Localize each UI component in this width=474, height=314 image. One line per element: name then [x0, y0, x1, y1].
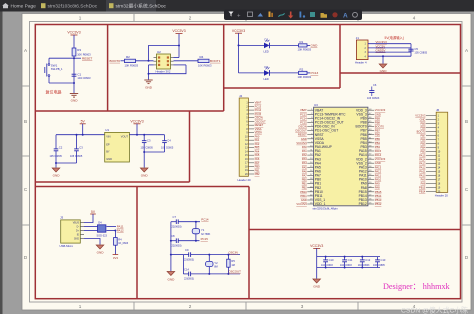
svg-text:VCC3V3: VCC3V3: [415, 113, 426, 117]
power flag 3V3: [113, 254, 119, 256]
svg-text:LED: LED: [264, 77, 269, 81]
divider box2/led box: [223, 25, 225, 112]
svg-text:OSCIN: OSCIN: [255, 116, 263, 120]
svg-text:U3: U3: [314, 103, 318, 107]
svg-text:VCC3V3: VCC3V3: [232, 29, 245, 33]
led box bottom: [224, 87, 340, 89]
ground: [140, 168, 148, 172]
box1+box2 bottom: [35, 110, 223, 112]
mcu left net labels: [295, 108, 307, 206]
svg-text:PB9: PB9: [375, 116, 381, 120]
svg-text:3V3: 3V3: [113, 256, 118, 260]
svg-text:PB14: PB14: [419, 189, 426, 193]
svg-text:D-: D-: [77, 226, 80, 228]
svg-text:104 C0603: 104 C0603: [358, 264, 370, 267]
svg-text:105 C0805: 105 C0805: [141, 147, 154, 150]
svg-text:RESET: RESET: [82, 57, 92, 61]
svg-text:PA12: PA12: [375, 169, 382, 173]
svg-text:D1: D1: [265, 37, 269, 41]
capacitor C5: [408, 48, 413, 50]
capacitor C2a: [76, 135, 78, 149]
svg-text:J1: J1: [356, 36, 360, 40]
svg-text:PA0: PA0: [255, 134, 260, 138]
regulator box bottom: [35, 181, 189, 183]
resistor R4u: [114, 231, 116, 238]
svg-text:104 C0603: 104 C0603: [77, 76, 91, 80]
mcu body: [314, 107, 368, 206]
svg-text:C11: C11: [348, 258, 353, 262]
svg-text:PB1: PB1: [302, 182, 308, 186]
wire to gnd: [382, 55, 384, 57]
wires + nets: [368, 44, 411, 57]
svg-text:PB11: PB11: [300, 194, 307, 198]
power flag VCC3V3: [67, 31, 80, 35]
svg-text:VCC3V3: VCC3V3: [296, 141, 307, 145]
capacitor C14: [183, 273, 188, 275]
svg-text:PA6: PA6: [255, 157, 260, 161]
svg-text:PC15: PC15: [300, 120, 307, 124]
wire: [144, 151, 164, 153]
svg-text:stm32f103c8t_48pin: stm32f103c8t_48pin: [313, 207, 339, 211]
svg-text:VBUS: VBUS: [73, 222, 80, 224]
mcu right net labels: [375, 108, 386, 206]
svg-text:PC13: PC13: [255, 104, 262, 108]
ground: [167, 272, 175, 276]
svg-text:PA8: PA8: [375, 186, 380, 190]
svg-text:PA12: PA12: [419, 165, 426, 169]
caps box top: [249, 229, 461, 231]
svg-text:PA4: PA4: [302, 161, 307, 165]
svg-text:VCC3V3: VCC3V3: [130, 119, 143, 123]
svg-text:C1: C1: [77, 72, 81, 76]
header U2: [157, 54, 171, 69]
capacitor C1a: [55, 135, 57, 149]
svg-text:PB14: PB14: [375, 194, 382, 198]
svg-text:PC13: PC13: [311, 71, 319, 75]
gnd rail: [170, 222, 172, 271]
svg-text:Header 20: Header 20: [238, 178, 252, 182]
svg-text:GND: GND: [420, 117, 426, 121]
svg-text:LED: LED: [264, 49, 269, 53]
esd diode D4: [98, 225, 106, 232]
row3 top: [35, 186, 249, 188]
svg-text:PC15: PC15: [201, 237, 209, 241]
connector J1: [356, 40, 368, 60]
wires D-/D+: [84, 226, 98, 228]
svg-text:GND: GND: [380, 69, 388, 73]
wire: [82, 124, 84, 135]
svg-text:C7: C7: [173, 215, 177, 219]
wire right: [174, 60, 199, 62]
svg-text:OSCOUT: OSCOUT: [255, 119, 267, 123]
svg-text:PB6: PB6: [420, 137, 425, 141]
regulator box right: [189, 111, 191, 182]
svg-text:Designer： hhhmxk: Designer： hhhmxk: [383, 282, 451, 291]
svg-text:PC14: PC14: [300, 116, 307, 120]
svg-text:C6: C6: [373, 83, 377, 87]
svg-text:1: 1: [79, 304, 82, 309]
svg-text:OSCOUT: OSCOUT: [295, 129, 307, 133]
capacitor C3b: [143, 135, 145, 141]
svg-text:VIN: VIN: [106, 135, 110, 139]
node PC13: [307, 72, 310, 74]
svg-text:5V: 5V: [81, 119, 86, 123]
svg-text:D2: D2: [265, 65, 269, 69]
crystal Y1: [195, 222, 197, 229]
svg-text:GND: GND: [313, 285, 321, 289]
svg-text:EP: EP: [106, 142, 110, 146]
resistor R4: [198, 59, 209, 62]
svg-text:105 C0805: 105 C0805: [50, 155, 63, 158]
svg-text:J6: J6: [436, 108, 440, 112]
svg-text:PA3: PA3: [255, 146, 260, 150]
svg-text:PA13: PA13: [419, 161, 426, 165]
svg-text:PA15: PA15: [419, 153, 426, 157]
svg-text:RESET: RESET: [255, 123, 264, 127]
svg-text:J3: J3: [60, 216, 64, 220]
svg-text:Header 20: Header 20: [435, 194, 449, 198]
svg-text:PA2: PA2: [302, 153, 307, 157]
svg-text:PB7: PB7: [420, 133, 425, 137]
svg-text:PB1: PB1: [255, 168, 260, 172]
capacitor C1: [72, 73, 77, 75]
svg-text:GND: GND: [141, 174, 149, 178]
svg-text:stm32f103c8t6.SchDoc: stm32f103c8t6.SchDoc: [48, 4, 98, 10]
svg-text:PA0: PA0: [302, 145, 307, 149]
svg-text:106 C0805: 106 C0805: [373, 264, 385, 267]
crystal/caps divider: [248, 187, 250, 299]
svg-text:SW-PB_1: SW-PB_1: [51, 67, 63, 71]
svg-text:VCC3V3: VCC3V3: [67, 31, 80, 35]
mcu pin numbers: [310, 109, 372, 205]
svg-text:PA7: PA7: [302, 174, 307, 178]
capacitor C6: [367, 83, 380, 100]
svg-text:GND: GND: [301, 137, 307, 141]
svg-text:22(0603): 22(0603): [172, 225, 182, 228]
svg-text:Y1: Y1: [201, 228, 205, 232]
usb connector J3: [61, 220, 81, 243]
svg-text:C9: C9: [185, 248, 189, 252]
svg-text:PB15: PB15: [375, 190, 382, 194]
resistor R3: [72, 48, 76, 56]
wire bottom loop: [149, 65, 187, 74]
svg-text:C3: C3: [79, 145, 83, 149]
svg-text:104 C0603: 104 C0603: [321, 264, 333, 267]
branch 2: [239, 72, 265, 74]
crystal Y2: [208, 254, 210, 256]
svg-text:PB12: PB12: [359, 202, 367, 206]
ground: [313, 279, 321, 283]
bottom rail: [317, 267, 380, 269]
svg-text:PC13: PC13: [300, 112, 307, 116]
capacitor C9: [183, 254, 188, 256]
svg-text:U1: U1: [105, 128, 109, 132]
svg-text:PB5: PB5: [375, 137, 381, 141]
svg-text:PB6: PB6: [375, 133, 381, 137]
wire gnd pin: [84, 239, 100, 245]
svg-text:PB2: PB2: [302, 186, 308, 190]
left dark strip: [0, 11, 3, 314]
svg-text:10K R0603: 10K R0603: [125, 64, 139, 68]
svg-text:PA14: PA14: [419, 157, 426, 161]
svg-text:PB4: PB4: [375, 141, 381, 145]
svg-text:复位电路: 复位电路: [46, 89, 62, 95]
svg-text:5V(电源输入): 5V(电源输入): [385, 35, 404, 40]
svg-text:PC15: PC15: [255, 112, 262, 116]
svg-text:SOD-323: SOD-323: [97, 234, 108, 237]
svg-text:4: 4: [413, 16, 416, 21]
svg-text:PA6: PA6: [302, 169, 307, 173]
svg-text:R4: R4: [118, 237, 122, 241]
svg-text:1K_0603: 1K_0603: [118, 242, 129, 245]
svg-text:10K R0603: 10K R0603: [298, 48, 312, 52]
wire: [73, 83, 75, 93]
capacitor C10: [326, 257, 378, 268]
svg-text:PB8: PB8: [420, 125, 425, 129]
outer drawing border: [35, 25, 460, 299]
svg-text:PB9: PB9: [420, 121, 425, 125]
svg-text:PA2: PA2: [255, 142, 260, 146]
svg-text:BOOT0: BOOT0: [417, 129, 426, 133]
svg-text:3: 3: [301, 304, 304, 309]
svg-text:GND: GND: [167, 277, 175, 281]
svg-text:PA3: PA3: [302, 157, 307, 161]
svg-text:PA1: PA1: [302, 149, 307, 153]
svg-text:2: 2: [189, 16, 192, 21]
ground: [70, 94, 78, 98]
svg-text:GND5V: GND5V: [376, 49, 386, 53]
svg-text:D4: D4: [98, 221, 102, 225]
divider led/power box: [339, 25, 341, 89]
svg-text:RESET: RESET: [298, 133, 307, 137]
wire: [238, 33, 240, 73]
svg-text:R1: R1: [300, 40, 304, 44]
svg-text:C12: C12: [365, 258, 370, 262]
capacitor C8: [171, 240, 176, 242]
mcu pin names left: [315, 108, 346, 206]
svg-text:C5: C5: [414, 47, 418, 51]
gnd drop: [316, 268, 318, 279]
svg-text:VCC3V3: VCC3V3: [172, 29, 185, 33]
svg-text:VCC3V3: VCC3V3: [375, 108, 386, 112]
svg-text:PA8: PA8: [421, 181, 426, 185]
svg-text:VDD_1: VDD_1: [315, 202, 326, 206]
svg-text:GND: GND: [71, 99, 79, 103]
svg-text:VDDA: VDDA: [255, 131, 262, 135]
svg-text:OSCOUT: OSCOUT: [229, 270, 242, 274]
svg-text:BOOT0: BOOT0: [110, 59, 121, 63]
svg-text:1M: 1M: [231, 264, 234, 267]
svg-text:GND: GND: [97, 251, 105, 255]
switch SW1: [48, 64, 50, 66]
wire to lower group: [171, 254, 184, 256]
pin stubs: [80, 223, 84, 239]
svg-text:Header 4: Header 4: [355, 61, 367, 65]
power box bottom: [340, 72, 461, 74]
svg-text:PA7: PA7: [255, 161, 260, 165]
svg-text:C3: C3: [147, 139, 151, 143]
svg-text:GND: GND: [311, 44, 319, 48]
resistor R5: [227, 254, 229, 256]
wire: [49, 57, 74, 59]
usb/crystal divider: [136, 187, 138, 299]
ground: [96, 245, 104, 249]
svg-text:PA4: PA4: [255, 150, 260, 154]
svg-text:CSDN @傻人式C小陈: CSDN @傻人式C小陈: [401, 306, 468, 314]
svg-text:PA9: PA9: [375, 182, 380, 186]
svg-text:VCC3V3: VCC3V3: [375, 157, 386, 161]
svg-text:GND: GND: [375, 112, 381, 116]
svg-text:105 C0805: 105 C0805: [70, 155, 83, 158]
svg-text:R5: R5: [231, 259, 235, 263]
svg-text:Home Page: Home Page: [11, 4, 37, 10]
svg-text:PB2: PB2: [255, 172, 260, 176]
wire: [136, 60, 154, 62]
svg-text:R2: R2: [126, 55, 130, 59]
svg-text:R3: R3: [77, 48, 81, 52]
wire: [48, 77, 50, 84]
resistor R2b: [299, 71, 308, 74]
svg-text:22(0603): 22(0603): [184, 278, 194, 281]
node GND: [307, 44, 310, 46]
svg-text:PA9: PA9: [421, 177, 426, 181]
svg-text:PB10: PB10: [300, 190, 307, 194]
svg-text:VBAT: VBAT: [255, 101, 262, 105]
svg-text:C14: C14: [184, 267, 189, 271]
doc tab 2 icon: [109, 3, 114, 8]
svg-text:+: +: [237, 14, 241, 20]
ground: [379, 64, 387, 68]
svg-text:Header 3X2: Header 3X2: [156, 70, 171, 74]
svg-text:PA13: PA13: [375, 165, 382, 169]
svg-text:32.768K: 32.768K: [201, 233, 211, 236]
svg-text:GND: GND: [145, 85, 153, 89]
svg-text:GND: GND: [106, 157, 112, 161]
floating toolbar: [224, 10, 362, 21]
svg-text:2: 2: [189, 304, 192, 309]
doc tab 1 icon: [41, 3, 46, 8]
svg-text:ID: ID: [77, 234, 80, 236]
svg-text:GND: GND: [375, 161, 381, 165]
ground: [52, 168, 60, 172]
svg-text:C10: C10: [329, 258, 334, 262]
svg-text:PB5: PB5: [420, 141, 425, 145]
svg-text:C2: C2: [59, 145, 63, 149]
svg-text:VCC3V3: VCC3V3: [296, 202, 307, 206]
svg-text:B: B: [465, 119, 468, 124]
svg-text:PA10: PA10: [375, 178, 382, 182]
svg-text:R2: R2: [300, 67, 304, 71]
svg-text:VOUT: VOUT: [121, 135, 129, 139]
svg-text:22(0603): 22(0603): [172, 244, 182, 247]
svg-text:PA15: PA15: [375, 149, 382, 153]
red border lines of schematic regions: [35, 25, 460, 299]
svg-text:PA5: PA5: [255, 153, 260, 157]
svg-text:C13: C13: [381, 258, 386, 262]
svg-text:BY: BY: [106, 150, 110, 154]
svg-text:PB7: PB7: [375, 129, 381, 133]
capacitor C7: [171, 221, 176, 223]
tab bar: [0, 0, 474, 12]
svg-text:PA12: PA12: [117, 229, 124, 233]
wire: [121, 60, 125, 62]
wire: [270, 72, 299, 74]
svg-text:103 C0603: 103 C0603: [367, 97, 380, 100]
svg-text:VSSA: VSSA: [255, 127, 262, 131]
svg-text:PB3: PB3: [375, 145, 381, 149]
svg-text:PB4: PB4: [420, 145, 425, 149]
regulator U1: [105, 132, 130, 162]
svg-text:Y2: Y2: [214, 261, 218, 265]
svg-text:105 C0805: 105 C0805: [414, 50, 427, 54]
svg-text:PB12: PB12: [375, 202, 382, 206]
wire: [270, 44, 299, 46]
svg-text:GND: GND: [53, 174, 61, 178]
svg-text:22(0603): 22(0603): [184, 258, 194, 261]
svg-text:PB13: PB13: [375, 198, 382, 202]
wire: [73, 35, 75, 48]
ground: [144, 80, 152, 84]
svg-text:105 C0805: 105 C0805: [161, 147, 174, 150]
LED D1: [264, 43, 270, 49]
svg-text:8M: 8M: [214, 266, 217, 269]
svg-text:PA1: PA1: [255, 138, 260, 142]
svg-text:1: 1: [79, 16, 82, 21]
svg-text:GND: GND: [74, 238, 79, 240]
LED D2: [264, 70, 270, 76]
wire top loop: [149, 46, 180, 61]
svg-text:B: B: [24, 119, 27, 124]
wire: [56, 162, 77, 164]
resistor R2: [125, 59, 136, 62]
svg-text:C8: C8: [171, 234, 175, 238]
svg-text:PC14: PC14: [255, 108, 262, 112]
svg-text:U2: U2: [157, 50, 161, 54]
node RESET: [74, 57, 81, 59]
wire: [178, 34, 180, 58]
svg-text:PA5: PA5: [302, 165, 307, 169]
wire: [148, 74, 150, 80]
svg-text:A: A: [343, 13, 348, 20]
svg-text:BOOT0: BOOT0: [375, 125, 385, 129]
svg-text:OSCIN: OSCIN: [298, 125, 307, 129]
mcu pin stubs left: [307, 110, 313, 204]
svg-text:J4: J4: [239, 94, 243, 98]
svg-text:PA14: PA14: [375, 153, 382, 157]
svg-text:PB3: PB3: [420, 149, 425, 153]
svg-text:C4: C4: [167, 139, 171, 143]
svg-text:GND: GND: [301, 198, 307, 202]
svg-text:PB15: PB15: [419, 185, 426, 189]
home icon: [2, 3, 9, 8]
mcu pin stubs right: [368, 110, 374, 204]
svg-text:stm32最小系统.SchDoc: stm32最小系统.SchDoc: [116, 3, 167, 10]
svg-text:PA11: PA11: [419, 169, 426, 173]
svg-text:R4: R4: [200, 55, 204, 59]
svg-text:10K R0603: 10K R0603: [298, 75, 312, 79]
svg-text:PB8: PB8: [375, 120, 381, 124]
divider box1/box2: [107, 25, 109, 112]
svg-text:PB0: PB0: [302, 178, 308, 182]
svg-text:PA10: PA10: [419, 173, 426, 177]
svg-text:OSCIN: OSCIN: [229, 251, 238, 255]
svg-text:SW1: SW1: [51, 64, 58, 68]
nodes PA11 PA12: [107, 226, 117, 228]
svg-text:10K R0603: 10K R0603: [198, 64, 212, 68]
svg-text:104 C0603: 104 C0603: [340, 264, 352, 267]
svg-text:VBAT: VBAT: [300, 108, 307, 112]
svg-text:USB-Micro: USB-Micro: [60, 244, 74, 248]
